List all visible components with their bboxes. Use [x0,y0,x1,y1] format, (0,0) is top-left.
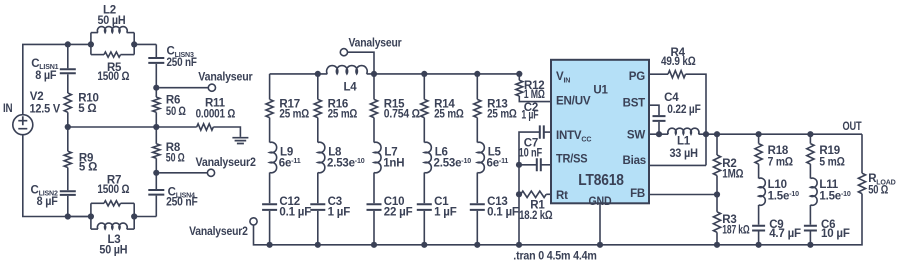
junction block2 right [131,213,137,219]
label C6 10 µF [821,219,850,240]
resistor R14 [421,99,428,117]
wire bottom rail right [600,244,810,246]
resistor R1 [521,191,547,197]
junction C3 bottom [315,242,321,248]
resistor R5 [104,52,121,57]
capacitor C1 [417,204,432,210]
wire bottom rail [68,216,91,218]
wire [373,74,375,100]
junction C12 bottom [267,242,273,248]
resistor R11 [197,124,214,130]
junction Vanalyseur/R15 [371,71,377,77]
resistor R7 [104,201,121,206]
svg-text:0.22 µF: 0.22 µF [667,104,700,116]
wire [758,164,760,178]
resistor R15 [370,99,377,117]
label C7 10 nF [519,137,543,159]
wire [373,211,375,245]
wire [269,211,271,245]
junction R12 top [516,71,522,77]
svg-text:1 µF: 1 µF [521,110,538,122]
wire SW [649,133,668,135]
svg-text:18.2 kΩ: 18.2 kΩ [519,210,552,222]
svg-text:50 µH: 50 µH [99,245,127,257]
junction C6 bottom [807,242,813,248]
wire to ground [213,127,240,137]
junction R14 [421,71,427,77]
svg-text:1 µF: 1 µF [328,206,351,218]
label R4 49.9 kOhm [661,47,696,68]
svg-text:C4: C4 [664,92,679,104]
svg-text:L11: L11 [819,179,838,191]
wire [67,168,69,191]
junction R13 [474,71,480,77]
svg-text:1MΩ: 1MΩ [722,169,743,181]
capacitor CLISN1 [60,69,76,73]
capacitor C4 [653,116,666,121]
label C13 0.1 µF [487,196,519,219]
svg-text:L4: L4 [343,81,357,93]
svg-text:2.53e-10: 2.53e-10 [434,157,472,169]
wire Bias [649,164,706,166]
label C10 22 µF [384,196,413,219]
junction C4/SW [656,131,662,137]
svg-text:4.7 µF: 4.7 µF [769,228,801,240]
junction C10 bottom [371,242,377,248]
wire [155,173,157,189]
wire [317,74,319,100]
wire [67,74,69,93]
wire [373,173,375,204]
svg-text:0.754 Ω: 0.754 Ω [384,108,420,120]
svg-text:EN/UV: EN/UV [556,95,591,107]
label R10 5 ohm [78,93,99,115]
wire block2 left post [90,203,92,229]
wire [155,112,157,127]
svg-text:0.1 µF: 0.1 µF [279,206,311,218]
svg-text:L1: L1 [677,135,691,147]
svg-text:V2: V2 [30,91,44,103]
wire [269,173,271,204]
port Vanalyseur (analyzer) [340,49,347,56]
label R13 25 mΩ [487,98,517,120]
wire [758,205,760,225]
wire [476,118,478,143]
svg-text:FB: FB [630,188,645,200]
inductor L6 [424,142,431,173]
capacitor C13 [470,204,485,210]
svg-text:L10: L10 [768,179,787,191]
svg-text:50 Ω: 50 Ω [166,153,185,165]
wire [716,232,718,245]
svg-text:Rt: Rt [556,190,568,202]
svg-text:U1: U1 [593,85,608,97]
junction R18 top [756,131,762,137]
label R15 0.754 Ω [384,98,420,120]
junction CLISN2 bottom [65,213,71,219]
wire [544,131,551,133]
label R2 1 MOhm [722,158,743,181]
wire [373,118,375,143]
label R12 1 MOhm [524,80,545,101]
wire [155,158,157,173]
svg-text:250 nF: 250 nF [166,196,198,208]
wire [67,127,69,151]
svg-text:1500 Ω: 1500 Ω [97,184,129,196]
port Vanalyseur2 (analyzer) [250,218,257,225]
junction CLISN1 top [65,41,71,47]
svg-text:25 mΩ: 25 mΩ [279,108,309,120]
svg-text:PG: PG [629,71,645,83]
svg-text:25 mΩ: 25 mΩ [434,108,464,120]
wire [423,74,425,100]
svg-text:Vanalyseur2: Vanalyseur2 [189,226,248,238]
wire [758,232,760,245]
inductor L4 [327,66,368,74]
svg-text:BST: BST [623,97,646,109]
svg-text:TR/SS: TR/SS [556,154,588,166]
svg-text:IN: IN [3,103,13,115]
resistor R19 [807,144,814,165]
svg-text:5 Ω: 5 Ω [79,162,97,174]
wire R1 to Rt [546,193,551,195]
wire [716,134,718,155]
wire [716,195,718,212]
wire [716,176,718,195]
wire [809,134,811,143]
wire port2 to bottom rail [254,225,270,245]
svg-text:1 MΩ: 1 MΩ [524,89,545,101]
ground [232,138,248,144]
svg-text:1 µF: 1 µF [434,206,457,218]
resistor R4 [668,71,686,78]
capacitor C7 [537,158,541,171]
svg-text:10 nF: 10 nF [519,148,543,160]
svg-text:25 mΩ: 25 mΩ [328,108,358,120]
inductor L5 [477,142,484,173]
svg-text:1500 Ω: 1500 Ω [97,71,129,83]
wire [67,196,69,217]
inductor L2 [97,27,127,33]
svg-text:50 Ω: 50 Ω [166,106,186,118]
label L3 50 uH [99,234,127,257]
resistor R13 [474,99,481,117]
wire [127,32,135,34]
svg-text:R6: R6 [166,95,180,107]
wire bottom rail mid [270,244,600,246]
wire FB [649,194,717,196]
wire [91,32,98,34]
wire to port [159,87,208,89]
svg-text:SW: SW [627,129,645,141]
junction R4/Bias post [703,131,709,137]
capacitor C10 [367,204,382,210]
wire [317,173,319,204]
svg-text:5 Ω: 5 Ω [78,103,96,115]
junction block2 left [88,213,94,219]
label L2 50 uH [98,4,126,27]
resistor R9 [64,151,71,167]
wire [519,164,537,166]
port Vanalyseur2 (LISN) [207,169,214,176]
wire [127,228,135,230]
junction L4 left [315,71,321,77]
capacitor C3 [310,204,325,210]
label R5 1500 ohm [97,62,129,83]
wire R12 to EN/UV [519,96,551,102]
wire [758,134,760,143]
resistor R3 [713,212,720,233]
svg-text:OUT: OUT [843,121,862,133]
wire [317,118,319,143]
label C9 4.7 µF [769,219,801,240]
capacitor CLISN4 [148,190,164,195]
resistor R17 [266,99,273,117]
resistor RLOAD [858,173,865,193]
label C4 0.22 uF [664,92,701,116]
label R9 5 ohm [79,152,97,173]
inductor L9 [270,142,277,173]
svg-text:Vanalyseur2: Vanalyseur2 [196,157,256,169]
wire port to rail [347,52,374,74]
wire [155,127,157,144]
wire [156,126,196,128]
svg-text:5 mΩ: 5 mΩ [819,156,844,168]
wire [476,211,478,245]
junction C13 bottom [474,242,480,248]
wire [809,164,811,178]
svg-text:1nH: 1nH [383,158,404,170]
wire [518,194,520,245]
wire [476,74,478,100]
resistor R16 [314,99,321,117]
wire C7 to TR/SS [541,164,551,166]
resistor R10 [64,93,71,112]
inductor L10 [759,178,766,205]
wire [121,54,135,56]
wire IN top rail [23,44,91,114]
resistor R12 [516,80,523,96]
wire [121,202,135,204]
svg-text:50 Ω: 50 Ω [868,184,888,196]
wire OUT down [861,134,863,173]
resistor R2 [713,155,720,176]
svg-text:12.5 V: 12.5 V [30,103,61,115]
svg-text:6e-11: 6e-11 [279,157,301,169]
wire [476,173,478,204]
wire [317,211,319,245]
svg-text:8 µF: 8 µF [37,196,58,208]
svg-text:8 µF: 8 µF [35,70,56,82]
inductor L3 [97,223,127,229]
wire R4 down to Bias [686,74,707,165]
svg-text:0.1 µF: 0.1 µF [487,206,519,218]
label R14 25 mΩ [434,98,464,120]
capacitor C9 [752,226,765,231]
wire [155,64,157,88]
svg-text:2.53e-10: 2.53e-10 [327,157,365,169]
junction R2 top [714,131,720,137]
junction R10/R9 mid [65,124,71,130]
label V2 12.5 V [30,91,61,115]
label L1 33 uH [669,135,697,160]
wire block right [133,33,135,55]
junction R6/R8/R11 mid [153,124,159,130]
svg-text:Bias: Bias [623,155,647,167]
junction R1 branch bottom [516,242,522,248]
label R8 50 ohm [166,142,185,165]
wire [91,202,104,204]
wire block2 right post [133,203,135,229]
junction R1 [516,191,522,197]
wire [155,196,157,217]
inductor L8 [318,142,325,173]
label R17 25 mΩ [279,98,309,120]
junction Vanalyseur2 tap [153,170,159,176]
voltage source V2 [13,115,33,135]
wire BST [649,105,659,115]
wire [658,122,660,134]
label R3 187 kOhm [722,214,749,236]
resistor R8 [153,144,160,159]
wire C2 to branch [519,132,540,165]
wire [155,44,157,57]
resistor R6 [153,97,160,112]
wire [519,193,521,195]
wire [518,74,520,80]
label R11 0.0001 ohm [196,97,236,120]
svg-text:10 µF: 10 µF [821,228,850,240]
svg-text:50 µH: 50 µH [98,15,126,27]
label C2 1 uF [521,102,538,122]
junction FB/R2/R3 [714,191,720,197]
wire [809,232,811,245]
svg-text:.tran 0 4.5m 4.4m: .tran 0 4.5m 4.4m [513,250,596,262]
junction GND bottom [597,242,603,248]
op-amp U1 LT8618 regulator body [551,60,649,204]
wire [518,165,520,195]
svg-text:6e-11: 6e-11 [487,157,509,169]
inductor L7 [374,142,381,173]
svg-text:0.0001 Ω: 0.0001 Ω [196,109,236,121]
wire block left [90,33,92,55]
label C12 0.1 µF [279,196,311,219]
label R6 50 ohm [166,95,186,118]
svg-text:187 kΩ: 187 kΩ [722,224,749,236]
wire [269,118,271,143]
label R19 5 mΩ [819,145,844,168]
wire [91,228,98,230]
label R18 7 mΩ [768,145,793,168]
inductor L1 [668,128,699,134]
port Vanalyseur (LISN) [208,84,215,91]
svg-text:Vanalyseur: Vanalyseur [198,71,253,83]
svg-text:R11: R11 [205,97,226,109]
wire [91,54,104,56]
svg-text:7 mΩ: 7 mΩ [768,156,793,168]
wire top rail B [367,73,520,75]
capacitor C2 [540,125,544,138]
wire RLOAD to bottom rail [810,194,862,245]
capacitor C6 [804,226,817,231]
junction C9 bottom [756,242,762,248]
wire [423,173,425,204]
inductor L11 [810,178,817,205]
wire V2 to bottom rail [23,135,91,217]
label R7 1500 ohm [97,175,129,197]
svg-text:33 µH: 33 µH [669,148,697,160]
svg-text:250 nF: 250 nF [167,57,197,69]
wire [155,88,157,97]
svg-text:LT8618: LT8618 [578,172,624,189]
svg-text:25 mΩ: 25 mΩ [487,108,517,120]
junction block left [88,41,94,47]
wire [423,211,425,245]
junction R3 bottom [714,242,720,248]
wire [134,43,156,45]
wire OUT rail [699,133,863,135]
wire mid rail [68,126,157,128]
junction C1 bottom [421,242,427,248]
capacitor CLISN2 [60,191,76,195]
label C3 1 µF [328,196,351,219]
wire bottom rail right [134,216,156,218]
label R1 18.2 kOhm [519,199,552,222]
junction C7 [516,162,522,168]
label C1 1 µF [434,196,457,219]
wire to port [159,172,207,174]
capacitor CLISN3 [148,58,164,63]
svg-text:1.5e-10: 1.5e-10 [819,190,851,202]
svg-text:1.5e-10: 1.5e-10 [768,190,800,202]
svg-text:Vanalyseur: Vanalyseur [349,37,403,49]
wire top rail A [270,73,328,75]
wire PG [649,73,668,75]
wire [67,44,69,68]
junction block right [131,41,137,47]
wire [67,112,69,127]
resistor R18 [755,144,762,165]
capacitor C12 [262,204,277,210]
junction Vanalyseur tap [153,85,159,91]
wire [809,205,811,225]
junction R19 top [807,131,813,137]
wire GND to bottom rail [599,203,601,245]
svg-text:49.9 kΩ: 49.9 kΩ [661,56,696,68]
wire [269,74,271,100]
label R16 25 mΩ [328,98,358,120]
wire [423,118,425,143]
svg-text:22 µF: 22 µF [384,206,413,218]
